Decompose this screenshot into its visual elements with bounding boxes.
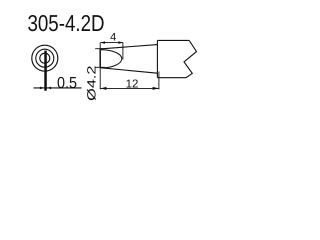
arrow right of edge bar xyxy=(47,87,51,90)
dimension 4: right extension xyxy=(122,43,124,60)
break zigzag line xyxy=(184,40,197,77)
dimension 12: right extension xyxy=(158,72,160,90)
step shoulder xyxy=(156,40,158,77)
side view: front chisel edge xyxy=(99,49,101,68)
front view middle circle xyxy=(36,49,54,67)
bevel face lower arc xyxy=(101,59,122,68)
dimension 4: line xyxy=(100,42,123,44)
title text 305-4.2D xyxy=(27,10,104,36)
arrow left of edge bar xyxy=(40,87,44,90)
front view outer circle xyxy=(32,45,58,71)
svg-text:12: 12 xyxy=(126,78,139,90)
dimension line 0.5 (front view) xyxy=(34,87,82,89)
svg-text:305-4.2D: 305-4.2D xyxy=(27,10,104,36)
chisel edge bar (front view) xyxy=(44,51,47,91)
label dia 4.2 (rotated) xyxy=(84,65,98,101)
extension tick top (dia 4.2) xyxy=(95,48,103,50)
dimension 4: left arrow xyxy=(100,41,105,44)
cone top outline xyxy=(100,45,157,49)
label 12 xyxy=(126,78,139,90)
extension line below edge (to 12 dim) xyxy=(99,68,101,90)
dimension 4: right arrow xyxy=(118,41,123,44)
svg-text:0.5: 0.5 xyxy=(57,75,77,92)
extension tick bottom (dia 4.2) xyxy=(95,66,105,68)
bevel face upper arc xyxy=(101,50,122,59)
front view inner circle xyxy=(40,53,50,63)
svg-text:4: 4 xyxy=(110,31,116,43)
dimension 12: line xyxy=(100,87,159,89)
cone bottom outline xyxy=(100,68,157,74)
svg-text:Ø4.2: Ø4.2 xyxy=(84,65,98,101)
dimension 4: left extension xyxy=(99,43,101,49)
label 4 xyxy=(110,31,116,43)
dimension 12: left arrow xyxy=(100,87,106,90)
label 0.5 xyxy=(57,75,77,92)
big cylinder top xyxy=(157,39,189,41)
big cylinder bottom xyxy=(157,77,186,79)
dimension 12: right arrow xyxy=(153,87,159,90)
